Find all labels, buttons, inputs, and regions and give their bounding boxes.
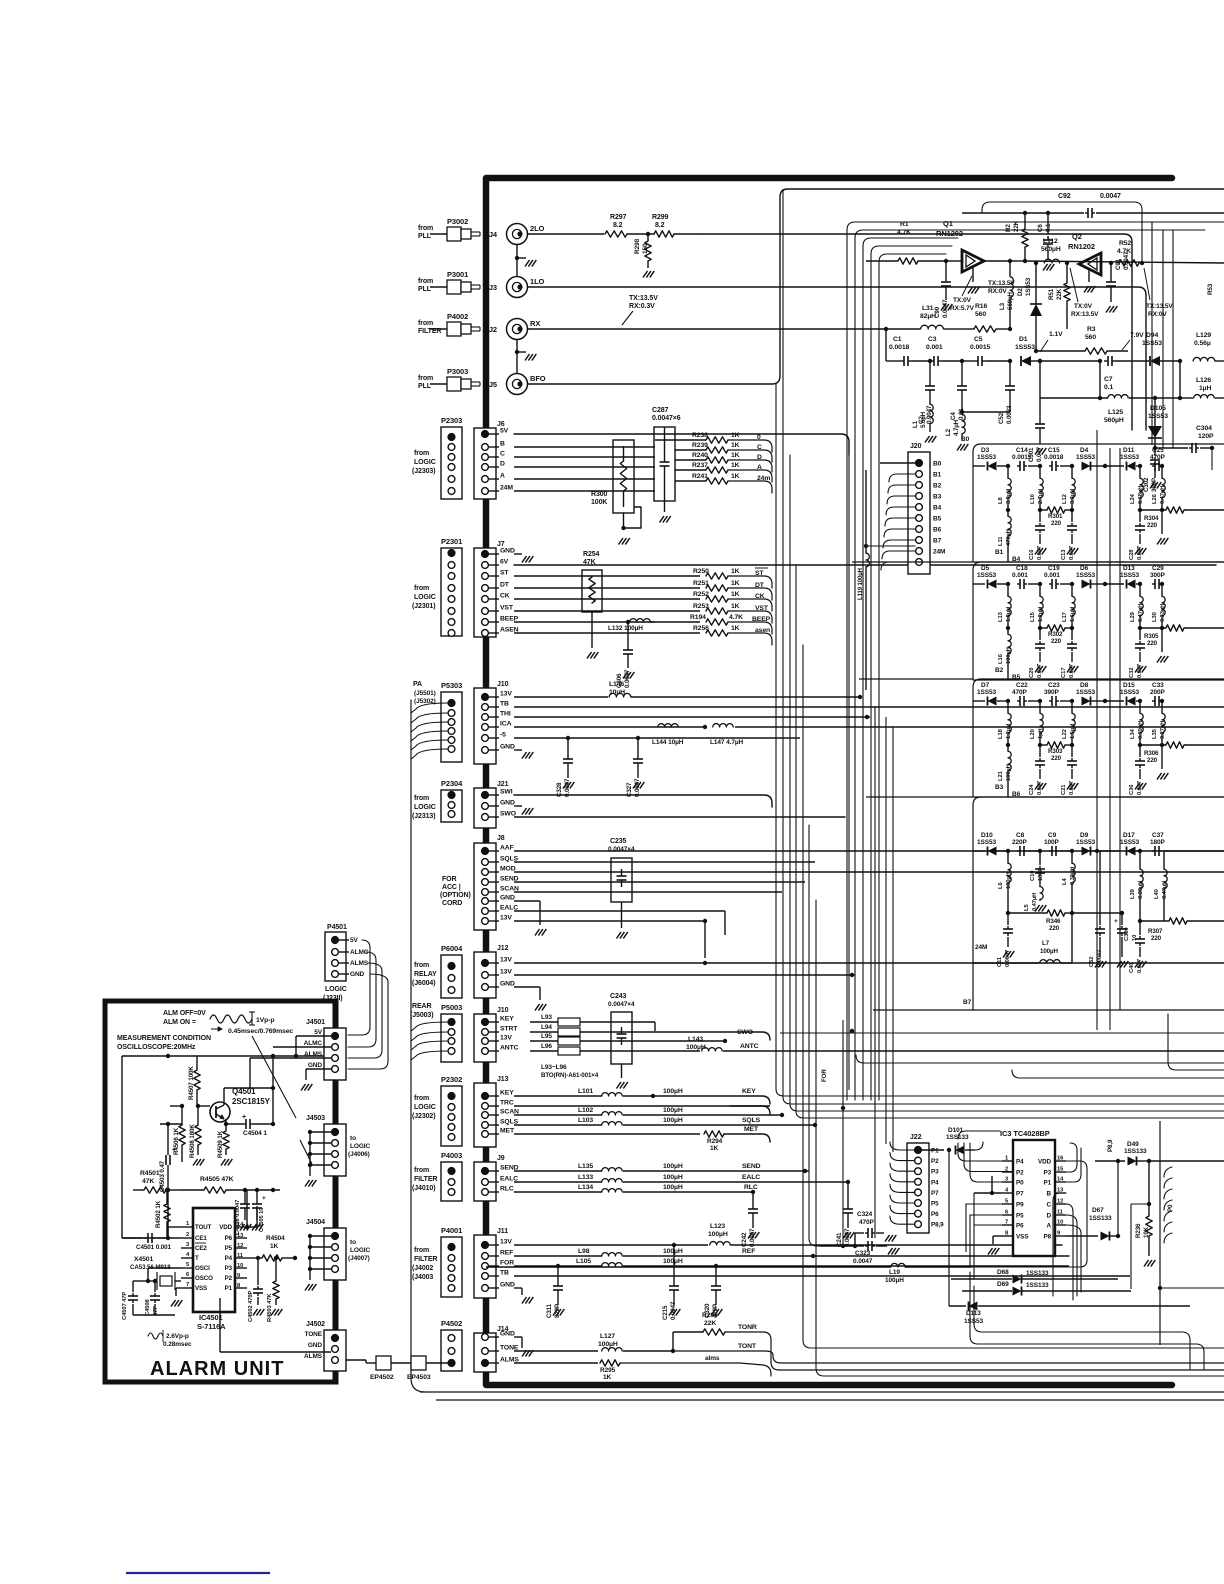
svg-text:0.0047×4: 0.0047×4 xyxy=(608,1001,635,1008)
svg-text:R236: R236 xyxy=(1135,1223,1142,1238)
svg-text:L8: L8 xyxy=(998,497,1004,504)
svg-text:VST: VST xyxy=(500,605,514,612)
wire bottom exits xyxy=(803,1340,1224,1348)
resistor R251 1K xyxy=(514,587,700,589)
svg-text:GND: GND xyxy=(500,981,515,988)
svg-text:P4: P4 xyxy=(1016,1159,1024,1166)
svg-text:D6: D6 xyxy=(1080,565,1089,572)
resistor R252 1K xyxy=(514,598,700,600)
svg-text:C4502 470P: C4502 470P xyxy=(248,1291,254,1322)
capacitor C328 0.0047 xyxy=(567,738,569,755)
ic IC3 pins xyxy=(1002,1160,1013,1162)
svg-text:C29: C29 xyxy=(1152,565,1164,572)
wire row separator B2 xyxy=(973,679,1224,681)
wire P5003 pigtails xyxy=(411,1022,448,1031)
svg-text:R238: R238 xyxy=(692,432,708,439)
wire alarm pointer diagonal xyxy=(252,1036,296,1118)
svg-text:220: 220 xyxy=(1147,757,1158,764)
svg-text:A: A xyxy=(1047,1223,1052,1230)
svg-text:J11: J11 xyxy=(497,1228,508,1235)
svg-text:L123: L123 xyxy=(710,1223,725,1230)
svg-text:J4502: J4502 xyxy=(306,1321,325,1328)
connector J13 xyxy=(474,1083,496,1147)
svg-text:C13: C13 xyxy=(1061,549,1067,560)
capacitor C4503 0.47 xyxy=(167,1165,169,1190)
svg-text:L26: L26 xyxy=(1152,493,1158,504)
svg-text:C311: C311 xyxy=(546,1303,553,1318)
svg-text:5.6µH: 5.6µH xyxy=(920,411,927,428)
wire L31 shunt chain xyxy=(885,329,887,361)
svg-text:PLL: PLL xyxy=(418,233,432,240)
svg-text:-5: -5 xyxy=(500,732,506,739)
wire J8 SEND xyxy=(514,881,805,883)
svg-text:0.0018: 0.0018 xyxy=(889,344,910,351)
svg-text:C21: C21 xyxy=(1061,784,1067,795)
svg-text:L20: L20 xyxy=(1030,729,1036,739)
svg-text:7: 7 xyxy=(186,1282,189,1288)
svg-text:ACC❘: ACC❘ xyxy=(442,883,463,891)
svg-text:B4: B4 xyxy=(933,505,942,512)
svg-text:C4501 0.001: C4501 0.001 xyxy=(136,1244,172,1251)
svg-text:14: 14 xyxy=(1057,1177,1064,1183)
svg-text:L39: L39 xyxy=(1130,888,1136,899)
svg-text:C52: C52 xyxy=(998,412,1005,424)
svg-text:100µH: 100µH xyxy=(663,1117,683,1124)
svg-text:L94: L94 xyxy=(541,1024,552,1031)
wire connector trunk xyxy=(483,181,489,428)
svg-text:2: 2 xyxy=(186,1232,189,1238)
svg-text:D8: D8 xyxy=(1080,682,1089,689)
svg-text:R296: R296 xyxy=(702,1312,718,1319)
svg-text:C243: C243 xyxy=(610,993,627,1000)
wire connector trunk xyxy=(483,499,489,548)
svg-text:D5: D5 xyxy=(981,565,990,572)
wire J20 B0 left xyxy=(880,462,916,464)
capacitor array C287 0.0047x6 xyxy=(654,427,675,501)
svg-text:B6: B6 xyxy=(933,527,942,534)
svg-text:L144 10µH: L144 10µH xyxy=(652,739,684,746)
svg-text:C323: C323 xyxy=(855,1250,871,1257)
svg-text:P1: P1 xyxy=(225,1285,233,1292)
filter block B2 outline xyxy=(973,562,1224,680)
svg-text:P4501: P4501 xyxy=(327,924,347,931)
connector P2301 xyxy=(441,548,462,636)
svg-text:1SS133: 1SS133 xyxy=(1026,1270,1049,1277)
svg-text:P3: P3 xyxy=(931,1169,939,1176)
wire Q2 out drop xyxy=(982,202,1142,263)
connector J14 xyxy=(474,1333,496,1372)
resistor R253 1K xyxy=(514,610,700,612)
svg-text:P4: P4 xyxy=(931,1179,939,1186)
wire J8 MOD xyxy=(514,871,1224,873)
svg-text:C5: C5 xyxy=(974,336,983,343)
svg-text:R52: R52 xyxy=(1119,240,1131,247)
svg-text:(J5501): (J5501) xyxy=(414,690,436,697)
svg-text:C20: C20 xyxy=(1029,668,1035,678)
wire C7 drop xyxy=(1099,361,1101,398)
svg-text:R2: R2 xyxy=(1005,224,1012,232)
connector J11 xyxy=(474,1235,496,1298)
svg-text:L3: L3 xyxy=(999,302,1006,310)
svg-text:8.2: 8.2 xyxy=(613,222,623,229)
wire connector trunk xyxy=(483,828,489,843)
svg-text:ALMS: ALMS xyxy=(350,960,369,967)
svg-text:1SS53: 1SS53 xyxy=(1076,839,1096,846)
svg-text:100µH: 100µH xyxy=(1040,948,1058,955)
wire 2LO to right bus xyxy=(700,234,1132,430)
svg-text:C23: C23 xyxy=(1048,682,1060,689)
svg-text:TB: TB xyxy=(500,1270,509,1277)
svg-text:RX:0V: RX:0V xyxy=(1148,311,1167,318)
capacitor C242 0.0047 xyxy=(752,1192,754,1205)
svg-text:P3001: P3001 xyxy=(447,270,468,279)
svg-text:1SS133: 1SS133 xyxy=(946,1134,969,1141)
wire J4504 links xyxy=(310,1235,331,1237)
wire J6 5V to right xyxy=(514,434,849,455)
svg-text:1K: 1K xyxy=(731,452,740,459)
svg-text:(J4003: (J4003 xyxy=(412,1274,433,1281)
svg-text:1SS53: 1SS53 xyxy=(1076,572,1096,579)
svg-text:REAR: REAR xyxy=(412,1003,431,1010)
svg-text:220: 220 xyxy=(1151,935,1162,942)
svg-text:L135: L135 xyxy=(578,1163,593,1170)
svg-text:R239: R239 xyxy=(692,442,708,449)
decor blue underline xyxy=(126,1572,270,1574)
svg-text:KEY: KEY xyxy=(500,1016,514,1023)
svg-text:BFO: BFO xyxy=(530,374,546,383)
capacitor C28 0.047 xyxy=(1139,510,1141,522)
svg-text:13V: 13V xyxy=(500,691,512,698)
svg-text:1SS53: 1SS53 xyxy=(1015,344,1035,351)
svg-text:1K: 1K xyxy=(731,625,740,632)
svg-text:13V: 13V xyxy=(500,957,512,964)
svg-text:D67: D67 xyxy=(1092,1207,1104,1214)
svg-text:5V: 5V xyxy=(350,937,359,944)
svg-text:P2301: P2301 xyxy=(441,537,462,546)
capacitor C4508 47P xyxy=(154,1281,156,1292)
svg-text:LOGIC: LOGIC xyxy=(350,1247,370,1254)
svg-text:C6: C6 xyxy=(1037,224,1044,232)
capacitor C11 0.0047 xyxy=(1007,913,1009,925)
svg-text:L119 100µH: L119 100µH xyxy=(858,568,864,600)
svg-text:GND: GND xyxy=(500,548,515,555)
svg-text:B1: B1 xyxy=(933,472,942,479)
svg-text:from: from xyxy=(418,375,433,382)
svg-text:TONR: TONR xyxy=(738,1324,757,1331)
inductor L102 100uH on SCAN xyxy=(514,1114,602,1116)
svg-text:from: from xyxy=(414,962,429,969)
svg-text:EP4503: EP4503 xyxy=(407,1374,431,1381)
svg-text:SEND: SEND xyxy=(742,1163,761,1170)
svg-text:C33: C33 xyxy=(1152,682,1164,689)
svg-text:100µH: 100µH xyxy=(598,1341,618,1348)
svg-text:L126: L126 xyxy=(1196,377,1211,384)
inductor L133 100uH on EALC xyxy=(514,1181,602,1183)
svg-text:22K: 22K xyxy=(1013,220,1020,232)
svg-text:B0: B0 xyxy=(933,461,942,468)
svg-text:from: from xyxy=(414,1247,429,1254)
svg-text:L96: L96 xyxy=(541,1043,552,1050)
svg-text:R4505 47K: R4505 47K xyxy=(200,1176,234,1183)
resistor R4507 100K xyxy=(194,1070,200,1090)
svg-text:X4501: X4501 xyxy=(134,1256,153,1263)
capacitor C215 0.0047 xyxy=(673,1245,675,1282)
svg-text:EALC: EALC xyxy=(742,1174,760,1181)
capacitor C241 0.0047 xyxy=(847,1182,849,1205)
svg-text:D9: D9 xyxy=(1080,832,1089,839)
wire J22 feed verticals xyxy=(874,707,876,1238)
svg-text:GND: GND xyxy=(308,1342,323,1349)
svg-text:4.7K: 4.7K xyxy=(897,229,911,236)
svg-text:1SS53: 1SS53 xyxy=(1120,454,1140,461)
wire bus top ic3 xyxy=(949,1130,958,1132)
svg-text:GND: GND xyxy=(308,1062,323,1069)
wire long bus pair mid xyxy=(809,1238,855,1246)
svg-text:470P: 470P xyxy=(1012,689,1028,696)
waveform 1Vp-p xyxy=(210,1015,252,1023)
svg-text:L2: L2 xyxy=(945,428,952,436)
svg-text:C: C xyxy=(500,451,505,458)
ground at J8 GND xyxy=(514,900,540,902)
svg-text:GND: GND xyxy=(500,895,515,902)
svg-text:B2: B2 xyxy=(995,667,1004,674)
svg-text:0.0047: 0.0047 xyxy=(853,1258,873,1265)
svg-text:from: from xyxy=(414,450,429,457)
svg-text:alms: alms xyxy=(705,1355,720,1362)
svg-text:MEASUREMENT CONDITION: MEASUREMENT CONDITION xyxy=(117,1035,211,1042)
ground below R298 xyxy=(643,271,648,278)
svg-text:(J4006): (J4006) xyxy=(348,1151,370,1158)
svg-text:100µH: 100µH xyxy=(663,1248,683,1255)
svg-text:D1: D1 xyxy=(1019,336,1028,343)
svg-text:R241: R241 xyxy=(692,473,708,480)
svg-text:R300: R300 xyxy=(591,491,608,498)
svg-text:0.001: 0.001 xyxy=(1044,572,1060,579)
svg-text:L101: L101 xyxy=(578,1088,593,1095)
svg-text:SQLS: SQLS xyxy=(742,1117,761,1124)
svg-text:P2: P2 xyxy=(931,1158,939,1165)
wire BFO from J5 up right bus xyxy=(528,189,1224,384)
wire connector trunk xyxy=(483,637,489,688)
inductor L135 100uH on SEND xyxy=(514,1170,602,1172)
svg-text:PLL: PLL xyxy=(418,383,432,390)
resistor R240 1K xyxy=(675,459,706,461)
svg-text:L102: L102 xyxy=(578,1107,593,1114)
svg-text:(J4010): (J4010) xyxy=(412,1185,435,1192)
wire connector trunk xyxy=(483,1201,489,1235)
svg-text:Q2: Q2 xyxy=(1072,232,1082,241)
connector P4501 xyxy=(325,932,346,981)
wire J8 EALC xyxy=(514,910,725,912)
svg-text:LOGIC: LOGIC xyxy=(414,459,436,466)
wire D1 junction xyxy=(1040,360,1100,362)
svg-text:L1: L1 xyxy=(912,420,919,428)
svg-text:from: from xyxy=(414,795,429,802)
svg-text:P3: P3 xyxy=(225,1265,233,1272)
svg-text:560: 560 xyxy=(975,311,986,318)
svg-text:FOR: FOR xyxy=(821,1069,828,1082)
svg-text:R51: R51 xyxy=(1048,288,1055,300)
svg-text:VSS: VSS xyxy=(1016,1234,1028,1241)
svg-text:D3: D3 xyxy=(981,447,990,454)
svg-text:OSCI: OSCI xyxy=(195,1265,210,1272)
ic IC4501 S-7116A xyxy=(193,1208,235,1312)
svg-text:B0: B0 xyxy=(961,436,970,443)
svg-text:1K: 1K xyxy=(731,568,740,575)
svg-text:P2: P2 xyxy=(1016,1170,1024,1177)
svg-text:C235: C235 xyxy=(610,838,627,845)
svg-text:P8,9: P8,9 xyxy=(1107,1139,1114,1152)
wire 13V J11 xyxy=(514,1244,674,1246)
svg-text:2SC1815Y: 2SC1815Y xyxy=(232,1097,271,1106)
capacitor array C235 0.0047x4 xyxy=(611,858,632,902)
svg-text:6V: 6V xyxy=(500,559,509,566)
svg-text:1SS133: 1SS133 xyxy=(1089,1215,1112,1222)
svg-text:B5: B5 xyxy=(933,516,942,523)
svg-text:D13: D13 xyxy=(1123,565,1135,572)
svg-text:1K: 1K xyxy=(731,580,740,587)
svg-text:1SS53: 1SS53 xyxy=(977,839,997,846)
svg-text:L17: L17 xyxy=(1062,612,1068,622)
resistor R4508 180K xyxy=(195,1125,201,1145)
svg-text:L4: L4 xyxy=(1062,878,1068,885)
inductor L144 10uH on ICA xyxy=(514,726,655,728)
wire TB J11 xyxy=(514,1275,1130,1277)
svg-text:1K: 1K xyxy=(731,473,740,480)
svg-text:J22: J22 xyxy=(910,1134,922,1141)
svg-text:560: 560 xyxy=(1085,334,1096,341)
svg-text:TOUT: TOUT xyxy=(195,1224,212,1231)
svg-text:ALM OFF=0V: ALM OFF=0V xyxy=(163,1010,206,1017)
svg-text:VSS: VSS xyxy=(195,1285,207,1292)
inductor L132 100uH on BEEP line xyxy=(514,621,655,623)
capacitor array C243 0.0047x4 xyxy=(611,1012,632,1064)
svg-text:L16: L16 xyxy=(998,653,1004,664)
svg-text:10: 10 xyxy=(237,1263,243,1269)
svg-text:(J4002: (J4002 xyxy=(412,1265,433,1272)
svg-text:B7: B7 xyxy=(933,538,942,545)
svg-text:D49: D49 xyxy=(1127,1141,1139,1148)
svg-text:REF: REF xyxy=(500,1250,513,1257)
svg-text:L15: L15 xyxy=(1030,611,1036,622)
svg-text:C4508: C4508 xyxy=(145,1299,151,1316)
connector P4502 xyxy=(441,1330,462,1371)
svg-text:RX:0V: RX:0V xyxy=(988,288,1007,295)
svg-text:7.9V: 7.9V xyxy=(1130,332,1144,339)
svg-text:2LO: 2LO xyxy=(530,224,545,233)
svg-text:LOGIC: LOGIC xyxy=(325,986,347,993)
capacitor C301 0.047 xyxy=(1039,361,1041,420)
svg-text:B: B xyxy=(1047,1191,1052,1198)
svg-text:ANTC: ANTC xyxy=(500,1045,519,1052)
svg-text:ALMS: ALMS xyxy=(304,1353,323,1360)
svg-text:DT: DT xyxy=(500,582,510,589)
svg-text:R306: R306 xyxy=(1144,750,1159,757)
svg-text:ANTC: ANTC xyxy=(740,1043,759,1050)
svg-text:ALMS: ALMS xyxy=(304,1051,323,1058)
svg-text:180P: 180P xyxy=(1150,839,1166,846)
svg-text:R53: R53 xyxy=(1207,283,1214,295)
svg-text:P7: P7 xyxy=(931,1190,939,1197)
svg-text:J12: J12 xyxy=(497,945,509,952)
svg-text:CE2: CE2 xyxy=(195,1245,207,1252)
wire bus y1033 xyxy=(780,1032,1224,1034)
svg-text:TX:0V: TX:0V xyxy=(953,297,972,304)
svg-text:D2: D2 xyxy=(1017,288,1024,296)
svg-text:100µH: 100µH xyxy=(708,1231,728,1238)
svg-text:1K: 1K xyxy=(731,603,740,610)
svg-text:0.0018: 0.0018 xyxy=(1044,454,1064,461)
svg-text:P0: P0 xyxy=(1167,1204,1174,1212)
wire outer boundary around connector column xyxy=(411,700,425,1392)
svg-text:P0: P0 xyxy=(1016,1180,1024,1187)
capacitor C300 10 xyxy=(1121,913,1123,925)
wire crystal net xyxy=(133,1280,148,1282)
wire J20 pigtails xyxy=(889,474,916,482)
capacitor C4 0.01 xyxy=(961,361,963,382)
wire mid vertical corners bottom xyxy=(776,1089,784,1096)
capacitor C4506 0.0047 xyxy=(244,1190,246,1200)
svg-text:Q1: Q1 xyxy=(943,219,953,228)
svg-text:L98: L98 xyxy=(578,1248,590,1255)
svg-text:BTO(RN)-A61-001×4: BTO(RN)-A61-001×4 xyxy=(541,1072,599,1079)
svg-text:SWO: SWO xyxy=(500,811,516,818)
ground IC3 VSS xyxy=(993,1235,1002,1237)
svg-text:CORD: CORD xyxy=(442,900,462,907)
svg-text:P4003: P4003 xyxy=(441,1151,462,1160)
resistor R238 1K xyxy=(675,439,706,441)
filter block B1 outline xyxy=(973,444,1224,562)
svg-text:220: 220 xyxy=(1049,925,1060,932)
svg-text:A: A xyxy=(500,473,505,480)
svg-text:RX: RX xyxy=(530,319,540,328)
svg-text:0.0015: 0.0015 xyxy=(1012,454,1032,461)
svg-text:D4: D4 xyxy=(1080,447,1089,454)
svg-text:R237: R237 xyxy=(692,462,708,469)
svg-text:1SS53: 1SS53 xyxy=(977,572,997,579)
svg-text:GND: GND xyxy=(500,1282,515,1289)
svg-text:L40: L40 xyxy=(1154,889,1160,899)
svg-text:0.0047: 0.0047 xyxy=(926,405,933,424)
wire right pigtail arcs xyxy=(1164,1167,1172,1177)
svg-text:220: 220 xyxy=(1147,640,1158,647)
svg-text:MET: MET xyxy=(500,1128,515,1135)
inductor L98 100uH on REF xyxy=(514,1255,602,1257)
svg-text:R16: R16 xyxy=(975,303,987,310)
svg-text:P2: P2 xyxy=(225,1275,233,1282)
svg-text:D7: D7 xyxy=(981,682,990,689)
ground IC VSS xyxy=(176,1287,181,1289)
svg-text:L134: L134 xyxy=(578,1184,593,1191)
filter block 24M outline xyxy=(973,797,1224,805)
svg-text:R4501: R4501 xyxy=(140,1170,160,1177)
svg-text:LOGIC: LOGIC xyxy=(414,804,436,811)
connector P5303 xyxy=(441,692,462,762)
wire bus line 2 xyxy=(855,230,1205,1100)
wire right edge verticals xyxy=(1151,222,1153,445)
svg-text:(J2303): (J2303) xyxy=(412,468,435,475)
svg-text:TX:13.5V: TX:13.5V xyxy=(1146,303,1173,310)
svg-text:100µH: 100µH xyxy=(663,1174,683,1181)
wire connector trunk xyxy=(483,1298,489,1333)
svg-text:J3: J3 xyxy=(489,283,497,292)
svg-text:B7: B7 xyxy=(963,999,972,1006)
wire bus line 1 xyxy=(847,222,1224,1100)
svg-text:FOR: FOR xyxy=(442,876,457,883)
svg-text:LOGIC: LOGIC xyxy=(350,1143,370,1150)
wire bus outer top xyxy=(788,188,1224,190)
svg-text:R4502 1K: R4502 1K xyxy=(155,1200,162,1228)
